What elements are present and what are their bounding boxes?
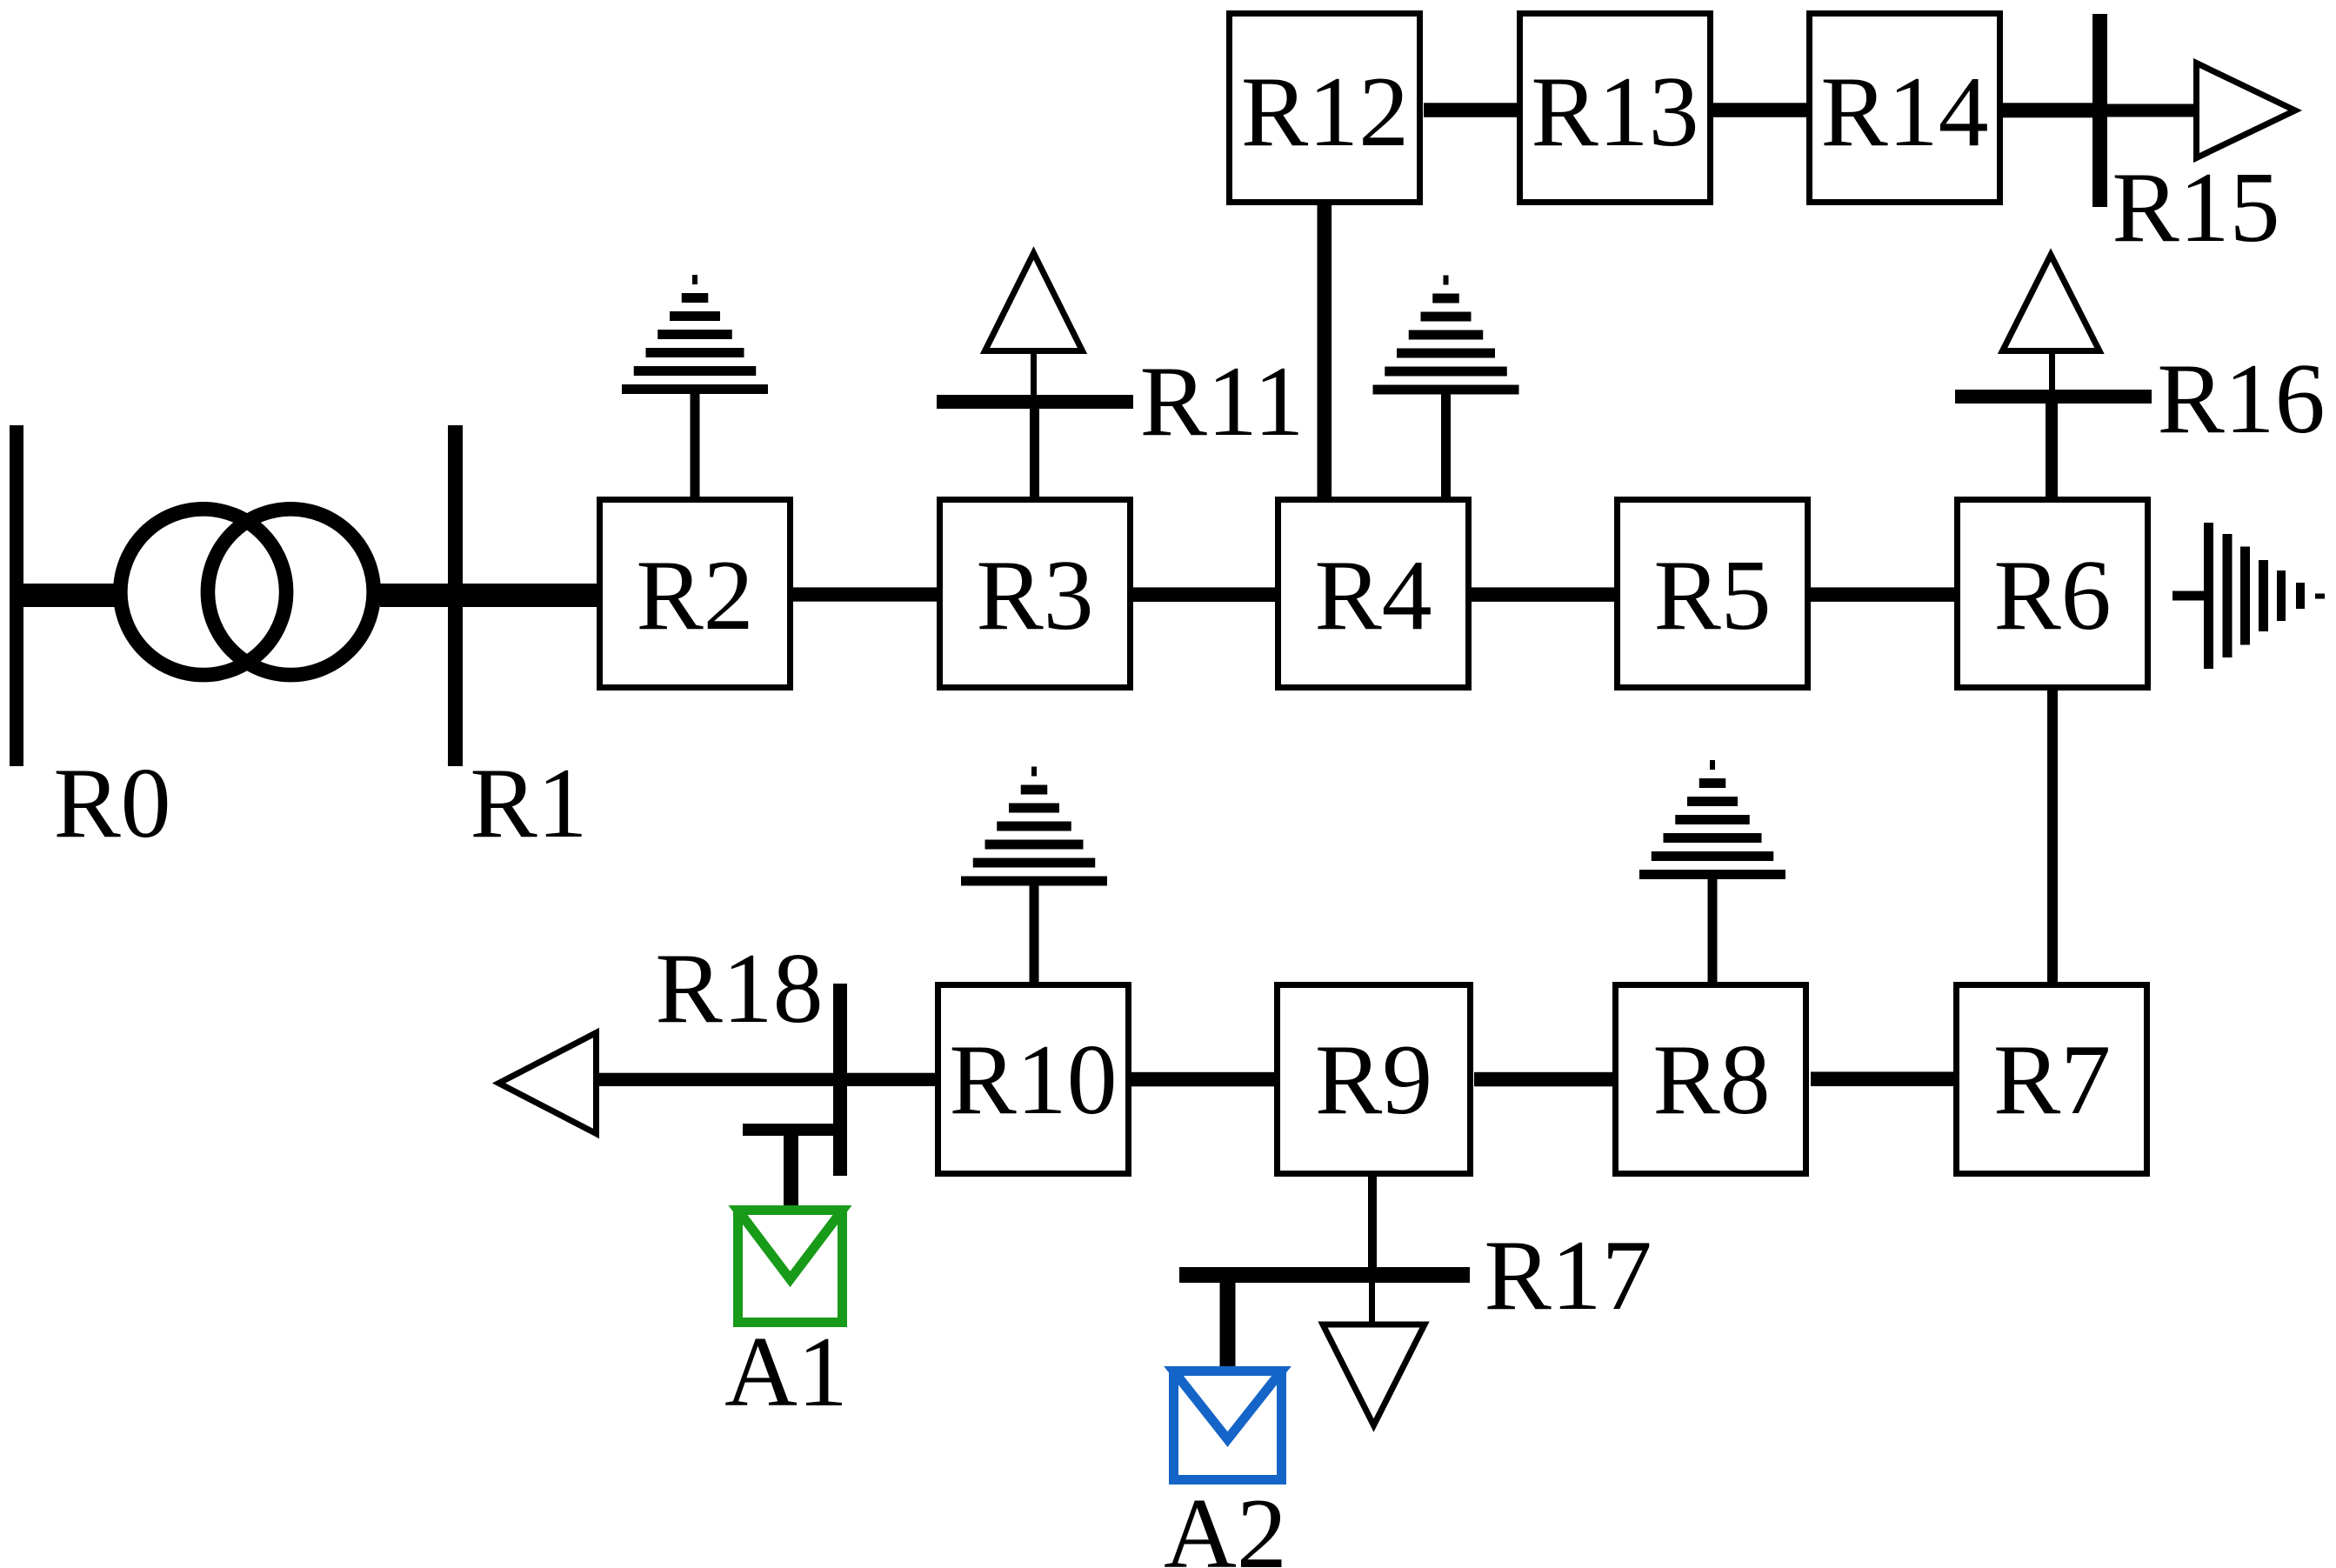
box R9 bbox=[1278, 985, 1471, 1174]
wire bus R16 to R6 bbox=[2046, 404, 2058, 497]
box R2 bbox=[600, 500, 791, 688]
wire R2 to R3 bbox=[793, 587, 937, 601]
wire R6 to right load tree bbox=[2172, 591, 2206, 601]
bus R1 bbox=[448, 425, 463, 766]
load tree at R2 bbox=[622, 275, 768, 394]
wire R3 to R4 bbox=[1133, 587, 1275, 602]
svg-text:R10: R10 bbox=[949, 1024, 1117, 1136]
bus R17 bbox=[1179, 1267, 1470, 1283]
bus R16 bbox=[1955, 390, 2152, 404]
wire bus R17 to A2 bbox=[1220, 1283, 1236, 1368]
box R7 bbox=[1957, 985, 2147, 1174]
wire R10 to feeder arrow R18 bbox=[599, 1073, 935, 1086]
bus R18 bbox=[833, 984, 847, 1176]
wire triangle to bus R11 bbox=[1031, 354, 1037, 395]
box R6 bbox=[1958, 500, 2148, 688]
wire R0 to transformer bbox=[23, 584, 117, 607]
feeder arrow R17 down bbox=[1323, 1324, 1425, 1425]
wire tree stem to R8 bbox=[1708, 877, 1718, 982]
svg-text:R0: R0 bbox=[53, 748, 170, 859]
box R3 bbox=[940, 500, 1131, 688]
wire R5 to R6 bbox=[1811, 587, 1954, 602]
svg-text:R4: R4 bbox=[1314, 540, 1432, 651]
svg-text:R18: R18 bbox=[655, 933, 823, 1044]
box R8 bbox=[1616, 985, 1806, 1174]
load tree at R8 bbox=[1639, 760, 1785, 879]
generator triangle at R16 bbox=[2003, 255, 2100, 351]
svg-text:R17: R17 bbox=[1484, 1220, 1652, 1331]
box R5 bbox=[1618, 500, 1808, 688]
wire triangle to bus R16 bbox=[2049, 354, 2055, 390]
svg-text:R16: R16 bbox=[2157, 344, 2325, 455]
feeder arrow R18 left bbox=[499, 1033, 597, 1134]
wire tree stem to R2 bbox=[691, 391, 700, 497]
wire tree stem to R4 bbox=[1441, 391, 1451, 497]
svg-text:R9: R9 bbox=[1315, 1024, 1432, 1136]
box R12 bbox=[1230, 14, 1420, 203]
wire R14 to bus R15 bbox=[2003, 103, 2092, 117]
bus R15 bbox=[2092, 14, 2107, 207]
svg-text:A1: A1 bbox=[724, 1317, 848, 1428]
box R10 bbox=[938, 985, 1129, 1174]
wire tree stem to R10 bbox=[1030, 883, 1039, 982]
svg-text:R14: R14 bbox=[1820, 57, 1988, 168]
svg-text:R7: R7 bbox=[1993, 1024, 2111, 1136]
load tree at R10 bbox=[961, 767, 1107, 886]
bus bar to A1 bbox=[743, 1124, 839, 1136]
wire bus to A1 bbox=[784, 1136, 798, 1207]
wire R4 to R5 bbox=[1472, 587, 1614, 602]
wire transformer to R1 bbox=[380, 584, 448, 607]
box R4 bbox=[1278, 500, 1469, 688]
svg-text:R13: R13 bbox=[1531, 57, 1699, 168]
feeder arrow R15 bbox=[2197, 63, 2296, 158]
sideways load tree at R6 bbox=[2204, 523, 2325, 669]
wire R1 to R2 bbox=[463, 584, 597, 607]
wire R6 to R7 bbox=[2047, 691, 2058, 982]
agent envelope A2 bbox=[1174, 1371, 1282, 1480]
bus R0 bbox=[10, 425, 23, 766]
bus R11 bbox=[937, 395, 1133, 409]
box R14 bbox=[1810, 14, 2000, 203]
svg-text:R1: R1 bbox=[470, 748, 587, 859]
wire bus R15 to arrow bbox=[2107, 104, 2193, 117]
wire R13 to R14 bbox=[1713, 103, 1806, 117]
transformer T1 bbox=[120, 509, 373, 675]
svg-text:R15: R15 bbox=[2112, 152, 2279, 264]
box R13 bbox=[1520, 14, 1711, 203]
wire R9 to bus R17 bbox=[1368, 1177, 1377, 1267]
svg-text:A2: A2 bbox=[1164, 1478, 1287, 1568]
generator triangle at R11 bbox=[985, 253, 1083, 351]
svg-text:R8: R8 bbox=[1652, 1024, 1770, 1136]
wire bus R11 to R3 bbox=[1030, 409, 1039, 497]
svg-text:R5: R5 bbox=[1653, 540, 1771, 651]
wire R12 to R13 bbox=[1424, 103, 1517, 117]
svg-text:R6: R6 bbox=[1993, 540, 2111, 651]
svg-text:R12: R12 bbox=[1241, 57, 1409, 168]
wire R9 to R10 bbox=[1131, 1072, 1278, 1087]
wire R8 to R9 bbox=[1474, 1072, 1612, 1087]
svg-text:R2: R2 bbox=[636, 540, 753, 651]
agent envelope A1 bbox=[738, 1211, 843, 1323]
wire bus R17 to down arrow bbox=[1369, 1283, 1375, 1324]
load tree at R4 bbox=[1373, 276, 1519, 395]
svg-text:R11: R11 bbox=[1139, 346, 1304, 457]
wire R12 to R4 bbox=[1318, 205, 1332, 497]
wire R7 to R8 bbox=[1811, 1071, 1953, 1086]
svg-text:R3: R3 bbox=[976, 540, 1093, 651]
